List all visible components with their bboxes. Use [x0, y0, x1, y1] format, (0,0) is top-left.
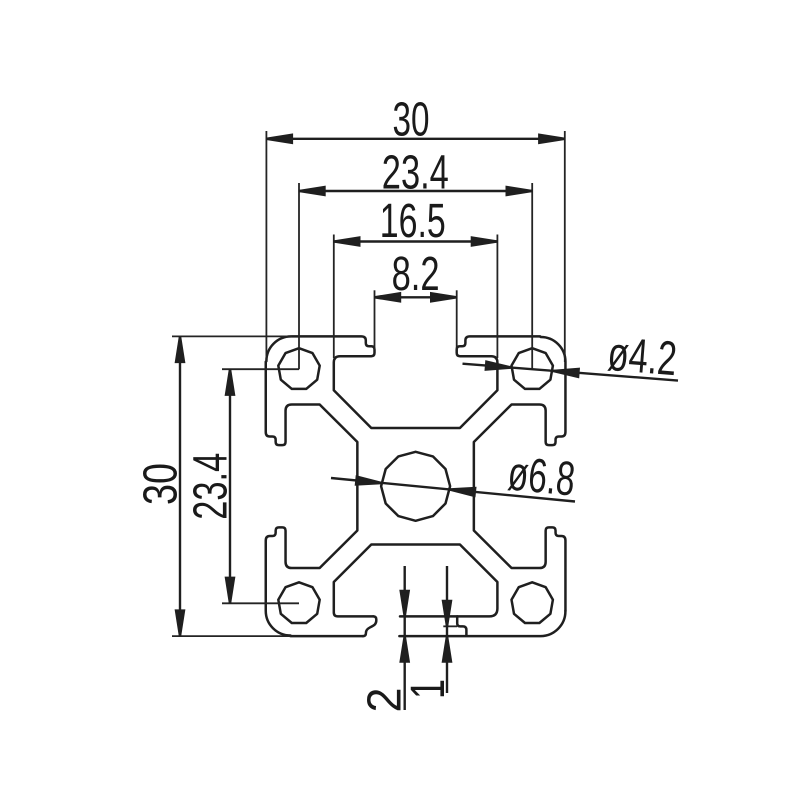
svg-text:23.4: 23.4: [382, 146, 449, 200]
corner hole top-right (o4.2): [512, 348, 553, 389]
svg-text:30: 30: [393, 92, 430, 146]
ext line 16.5 right: [496, 235, 498, 359]
dim line 16.5: [334, 240, 498, 242]
dim line 8.2: [375, 296, 457, 298]
ext line dim30 top right: [564, 131, 566, 362]
dim line 23.4 top: [299, 190, 532, 192]
bottom cavity: walls, webs diagonals, center-boss bottom face, floor segments: [334, 545, 498, 617]
center line TR hole vertical / ext 23.4: [531, 183, 533, 369]
svg-text:8.2: 8.2: [392, 247, 440, 301]
bottom wall groove step (1 mm): [457, 616, 466, 635]
leader line o4.2: [463, 364, 679, 381]
profile outer contour: top edge with T-slot: [266, 336, 540, 428]
center line TL hole vertical / ext 23.4: [298, 183, 300, 369]
dim line 23.4 left: [229, 369, 231, 603]
ext line 30 left top: [172, 335, 292, 337]
ext line 8.2 right: [456, 290, 458, 350]
center line BL hole horizontal / ext 23.4 left: [222, 602, 299, 604]
svg-text:16.5: 16.5: [380, 194, 446, 248]
corner hole top-left (o4.2): [278, 348, 319, 389]
svg-text:23.4: 23.4: [184, 453, 238, 520]
ext line dim30 top left: [265, 131, 267, 362]
ext line 16.5 left: [333, 235, 335, 359]
profile right edge with T-slot (rotated copy): [474, 337, 566, 611]
ext tick for dim 1 at groove floor: [443, 625, 457, 627]
bottom wall S-step (left floor end down to outer surface): [363, 616, 376, 636]
profile left edge with T-slot (rotated copy): [266, 362, 358, 636]
svg-text:ø6.8: ø6.8: [506, 446, 578, 506]
bottom outer surface, left segment + bottom-left corner join: [291, 635, 363, 638]
dim line 1 bottom: [446, 566, 448, 693]
dim line 30 left: [179, 336, 181, 636]
svg-text:30: 30: [134, 463, 188, 505]
corner hole bottom-left (o4.2): [278, 582, 319, 623]
center line TL hole horizontal / ext 23.4 left: [222, 368, 299, 370]
svg-text:ø4.2: ø4.2: [606, 327, 679, 386]
center hole (o6.8): [381, 452, 450, 521]
corner hole bottom-right (o4.2): [512, 582, 553, 623]
ext line 30 left bottom: [172, 635, 291, 637]
dim line 2 bottom: [404, 566, 406, 710]
dim line 30 top: [266, 138, 564, 140]
svg-text:1: 1: [401, 679, 455, 699]
leader line o6.8: [331, 478, 575, 502]
ext line 8.2 left: [374, 290, 376, 350]
bottom outer surface, right segment + bottom-right corner arc: [399, 611, 565, 636]
